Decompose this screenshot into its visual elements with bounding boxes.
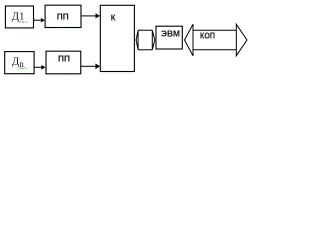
bus double-arrow KOP : shaft top line: [193, 29, 236, 31]
block EVM (computer): [156, 26, 182, 49]
spellcheck squiggle under Dn: [17, 68, 27, 69]
wire Dn to PP2: [34, 66, 42, 68]
bus double-arrow KOP : right head triangle: [236, 24, 247, 55]
arrowhead into K (row 2): [95, 64, 100, 70]
bus double-arrow KOP : left head triangle: [185, 24, 194, 55]
green fringe under K bottom edge: [101, 72, 134, 74]
arrowhead into PP1: [41, 18, 45, 22]
block PP2 (primary converter, row 2): [46, 51, 81, 74]
spellcheck squiggle under D1: [18, 21, 28, 22]
wire D1 to PP1: [34, 19, 42, 21]
bus double-arrow K to EVM : bottom bar: [138, 49, 152, 51]
bus double-arrow K to EVM : left head triangle: [136, 30, 138, 50]
green speck at D1 box edge: [33, 18, 34, 19]
block D1 (sensor 1): [5, 6, 33, 28]
svg-text:К: К: [111, 13, 116, 22]
block K (commutator, tall): [100, 5, 134, 71]
svg-text:ПП: ПП: [57, 11, 69, 21]
green fringe under PP2 bottom edge: [47, 74, 81, 76]
arrowhead into PP2: [41, 65, 45, 70]
svg-text:ПП: ПП: [58, 53, 70, 63]
green fringe under PP1 bottom edge: [46, 28, 81, 30]
svg-text:КОП: КОП: [200, 30, 215, 40]
block Dn (sensor n): [5, 52, 34, 74]
green fringe under D1 bottom edge: [6, 28, 34, 30]
block PP1 (primary converter, row 1): [45, 5, 81, 27]
wire PP1 to K: [81, 15, 96, 17]
svg-text:ЭВМ: ЭВМ: [161, 30, 180, 39]
bus double-arrow K to EVM : top bar: [138, 29, 152, 31]
green fringe under Dn bottom edge: [5, 74, 34, 76]
bus double-arrow K to EVM : right head triangle: [152, 30, 155, 50]
bus double-arrow KOP : shaft bottom line: [193, 49, 236, 51]
svg-text:Д1: Д1: [12, 10, 25, 22]
arrowhead into K (row 1): [96, 13, 100, 18]
wire PP2 to K: [81, 65, 96, 67]
